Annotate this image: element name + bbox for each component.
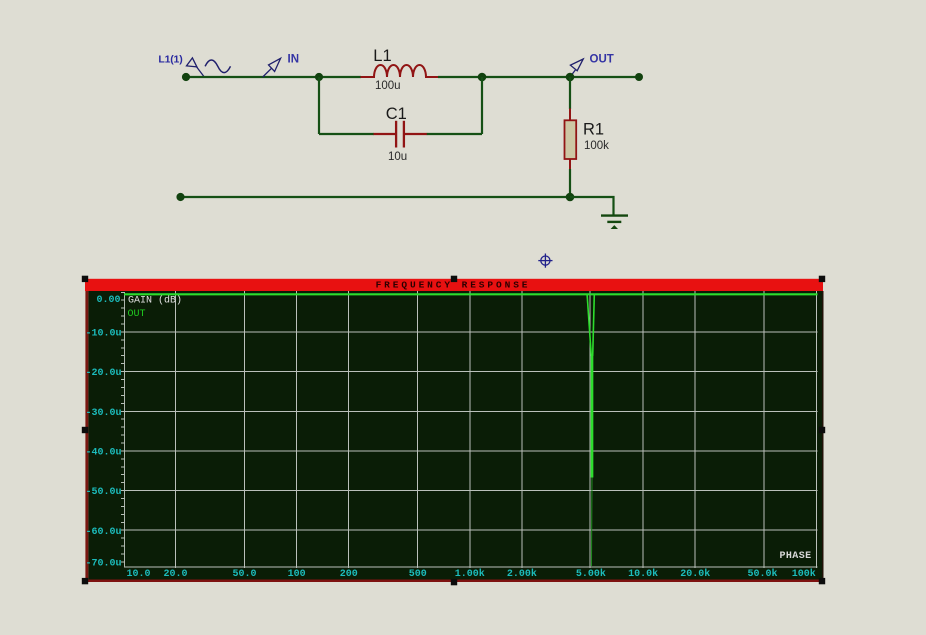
junction node (right of C branch) bbox=[478, 73, 487, 82]
svg-text:200: 200 bbox=[340, 569, 358, 580]
svg-text:-70.0u: -70.0u bbox=[85, 559, 121, 570]
svg-text:50.0: 50.0 bbox=[232, 569, 256, 580]
graph vertical gridlines bbox=[176, 291, 817, 568]
svg-text:R1: R1 bbox=[583, 121, 604, 139]
origin marker bbox=[538, 254, 552, 268]
wire top-left bbox=[186, 76, 361, 78]
svg-text:PHASE: PHASE bbox=[780, 551, 812, 562]
generator L1(1) bbox=[158, 54, 230, 77]
junction node bottom at R1 bbox=[566, 193, 575, 202]
svg-text:500: 500 bbox=[409, 569, 427, 580]
svg-text:L1(1): L1(1) bbox=[158, 54, 182, 66]
resistor R1 bbox=[565, 109, 577, 170]
graph y axis ticks bbox=[124, 292, 126, 567]
graph frame red border and title bar bbox=[85, 279, 824, 582]
svg-text:C1: C1 bbox=[386, 105, 407, 123]
svg-text:10u: 10u bbox=[388, 151, 407, 163]
svg-text:-10.0u: -10.0u bbox=[85, 329, 121, 340]
selection handles bbox=[82, 276, 825, 586]
svg-text:-20.0u: -20.0u bbox=[85, 368, 121, 379]
node bottom-left end bbox=[176, 193, 184, 201]
wire OUT node down to R1 bbox=[569, 77, 571, 109]
wire C branch right vertical bbox=[481, 77, 483, 134]
gain curve flat 0dB bbox=[124, 293, 818, 295]
inductor L1 bbox=[361, 65, 439, 77]
bottom wire bbox=[181, 196, 571, 198]
wire C branch left vertical bbox=[318, 77, 320, 134]
graph horizontal gridlines bbox=[124, 332, 818, 567]
ground bbox=[601, 216, 628, 229]
wire R1 to bottom bbox=[569, 169, 571, 197]
svg-text:10.0k: 10.0k bbox=[628, 568, 658, 580]
svg-text:50.0k: 50.0k bbox=[747, 568, 777, 580]
svg-text:100: 100 bbox=[288, 569, 306, 580]
wire L1 to OUT node bbox=[438, 76, 570, 78]
svg-text:OUT: OUT bbox=[128, 309, 146, 320]
svg-text:-50.0u: -50.0u bbox=[85, 487, 121, 498]
junction node at OUT bbox=[566, 73, 575, 82]
svg-text:1.00k: 1.00k bbox=[455, 568, 485, 580]
probe OUT bbox=[570, 54, 614, 78]
wire to ground bbox=[570, 197, 614, 216]
svg-text:100k: 100k bbox=[584, 140, 609, 152]
svg-text:-40.0u: -40.0u bbox=[85, 448, 121, 459]
svg-text:10.0: 10.0 bbox=[126, 569, 150, 580]
svg-text:OUT: OUT bbox=[590, 54, 614, 66]
svg-text:-60.0u: -60.0u bbox=[85, 527, 121, 538]
svg-text:5.00k: 5.00k bbox=[576, 568, 606, 580]
wire OUT node to right end bbox=[570, 76, 639, 78]
svg-text:20.0: 20.0 bbox=[163, 569, 187, 580]
svg-text:100u: 100u bbox=[375, 80, 401, 92]
svg-text:L1: L1 bbox=[373, 47, 391, 65]
svg-text:IN: IN bbox=[288, 54, 300, 66]
gain curve notch at 5kHz bbox=[587, 294, 594, 477]
y axis labels bbox=[85, 295, 121, 570]
probe IN bbox=[263, 54, 299, 78]
wire C branch bottom left bbox=[319, 133, 374, 135]
svg-text:-30.0u: -30.0u bbox=[85, 408, 121, 419]
x axis labels bbox=[126, 568, 815, 580]
node right end bbox=[635, 73, 643, 81]
node left end bbox=[182, 73, 190, 81]
gain curve faint tail below notch bbox=[591, 478, 594, 567]
svg-text:2.00k: 2.00k bbox=[507, 568, 537, 580]
junction node (left of C branch) bbox=[315, 73, 323, 81]
svg-text:GAIN (dB): GAIN (dB) bbox=[128, 295, 182, 307]
capacitor C1 bbox=[374, 121, 428, 148]
svg-text:20.0k: 20.0k bbox=[680, 568, 710, 580]
svg-text:0.00: 0.00 bbox=[96, 295, 120, 306]
svg-text:100k: 100k bbox=[792, 568, 816, 580]
wire C1 to right vertical bbox=[427, 133, 482, 135]
